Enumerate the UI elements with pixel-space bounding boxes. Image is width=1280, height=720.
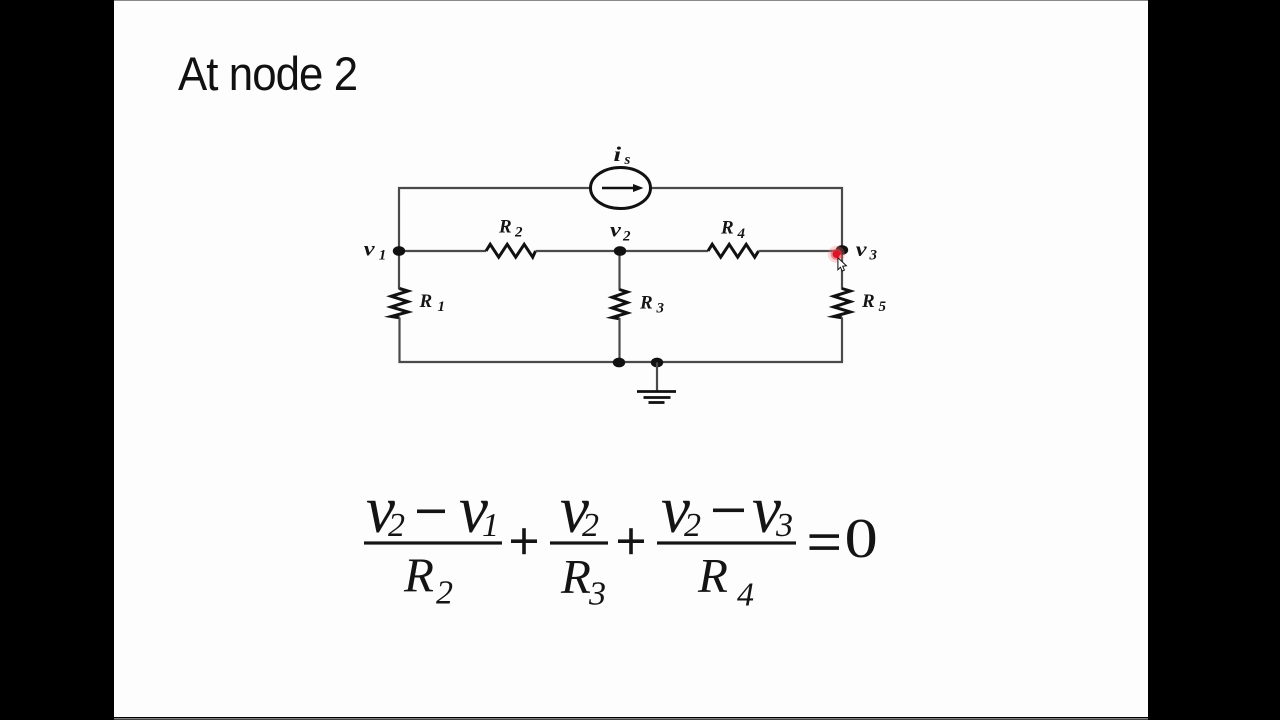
node v1 bbox=[393, 246, 405, 256]
resistor R5 bbox=[834, 289, 851, 318]
label R3 bbox=[639, 293, 665, 317]
resistor R4 bbox=[708, 244, 759, 257]
ground bbox=[637, 363, 676, 403]
svg-text:4: 4 bbox=[737, 226, 746, 242]
svg-text:2: 2 bbox=[684, 507, 701, 544]
svg-text:i: i bbox=[614, 143, 622, 166]
svg-text:2: 2 bbox=[514, 225, 523, 241]
svg-text:4: 4 bbox=[737, 577, 754, 614]
svg-text:R: R bbox=[697, 548, 728, 603]
wire left rail above R1 bbox=[398, 251, 400, 290]
svg-text:1: 1 bbox=[482, 507, 499, 544]
svg-text:R: R bbox=[639, 293, 653, 314]
wire middle horizontal R2 to v2 bbox=[536, 250, 621, 252]
wire right rail above R5 bbox=[841, 250, 843, 290]
node v2 bbox=[614, 246, 626, 256]
wire top-left segment bbox=[399, 188, 590, 251]
svg-text:R: R bbox=[560, 549, 591, 604]
svg-text:R: R bbox=[720, 218, 734, 239]
svg-text:2: 2 bbox=[388, 507, 405, 544]
node ground junction bbox=[651, 358, 663, 368]
wire bottom between nodes bbox=[619, 361, 657, 363]
label R5 bbox=[861, 291, 887, 315]
svg-text:v: v bbox=[364, 238, 376, 260]
label v2 bbox=[610, 219, 631, 245]
svg-text:3: 3 bbox=[588, 576, 606, 613]
svg-text:v: v bbox=[610, 219, 622, 241]
mouse pointer bbox=[838, 258, 847, 271]
svg-text:v: v bbox=[856, 238, 868, 260]
equation plus 1 bbox=[511, 528, 537, 554]
label R4 bbox=[720, 218, 746, 243]
equation equals 0 bbox=[810, 508, 878, 570]
wire middle horizontal v2 to R4 bbox=[620, 250, 708, 252]
fraction bar R2 bbox=[364, 541, 502, 544]
wire R3 top lead bbox=[618, 251, 620, 291]
svg-text:R: R bbox=[498, 217, 512, 238]
equation term (v2-v3)/R4 bbox=[657, 471, 796, 614]
resistor R2 bbox=[486, 244, 536, 257]
equation term v2/R3 bbox=[550, 471, 608, 613]
svg-text:2: 2 bbox=[436, 575, 453, 612]
svg-text:3: 3 bbox=[775, 507, 793, 544]
svg-text:0: 0 bbox=[845, 508, 878, 570]
svg-text:3: 3 bbox=[656, 301, 665, 317]
svg-text:3: 3 bbox=[869, 248, 878, 264]
resistor R3 bbox=[612, 290, 627, 319]
wire R3 bottom lead bbox=[618, 318, 620, 362]
resistor R1 bbox=[391, 289, 408, 318]
label v3 bbox=[856, 238, 878, 264]
wire right rail below R5 bbox=[657, 318, 842, 363]
label i_s bbox=[614, 143, 631, 168]
svg-text:1: 1 bbox=[379, 248, 387, 264]
svg-text:R: R bbox=[403, 548, 434, 603]
equation term (v2-v1)/R2 bbox=[364, 471, 502, 612]
wire top-right segment bbox=[651, 188, 842, 250]
svg-text:R: R bbox=[419, 291, 433, 312]
node v3 bbox=[836, 245, 848, 255]
wire middle horizontal R4 to v3 bbox=[759, 250, 843, 252]
node bottom under R3 bbox=[613, 358, 625, 368]
svg-text:s: s bbox=[624, 152, 631, 168]
label v1 bbox=[364, 238, 386, 264]
label R1 bbox=[419, 291, 446, 315]
wire middle horizontal v1 to R2 bbox=[399, 250, 486, 252]
svg-text:5: 5 bbox=[879, 299, 887, 315]
svg-text:2: 2 bbox=[582, 507, 599, 544]
equation plus 2 bbox=[618, 528, 644, 554]
wire left rail below R1 bbox=[400, 318, 620, 363]
label R2 bbox=[498, 217, 523, 241]
svg-text:2: 2 bbox=[622, 229, 631, 245]
red cursor highlight at node v3 bbox=[828, 246, 845, 263]
svg-text:1: 1 bbox=[438, 299, 446, 315]
svg-text:R: R bbox=[861, 291, 875, 312]
current source is bbox=[591, 168, 651, 209]
